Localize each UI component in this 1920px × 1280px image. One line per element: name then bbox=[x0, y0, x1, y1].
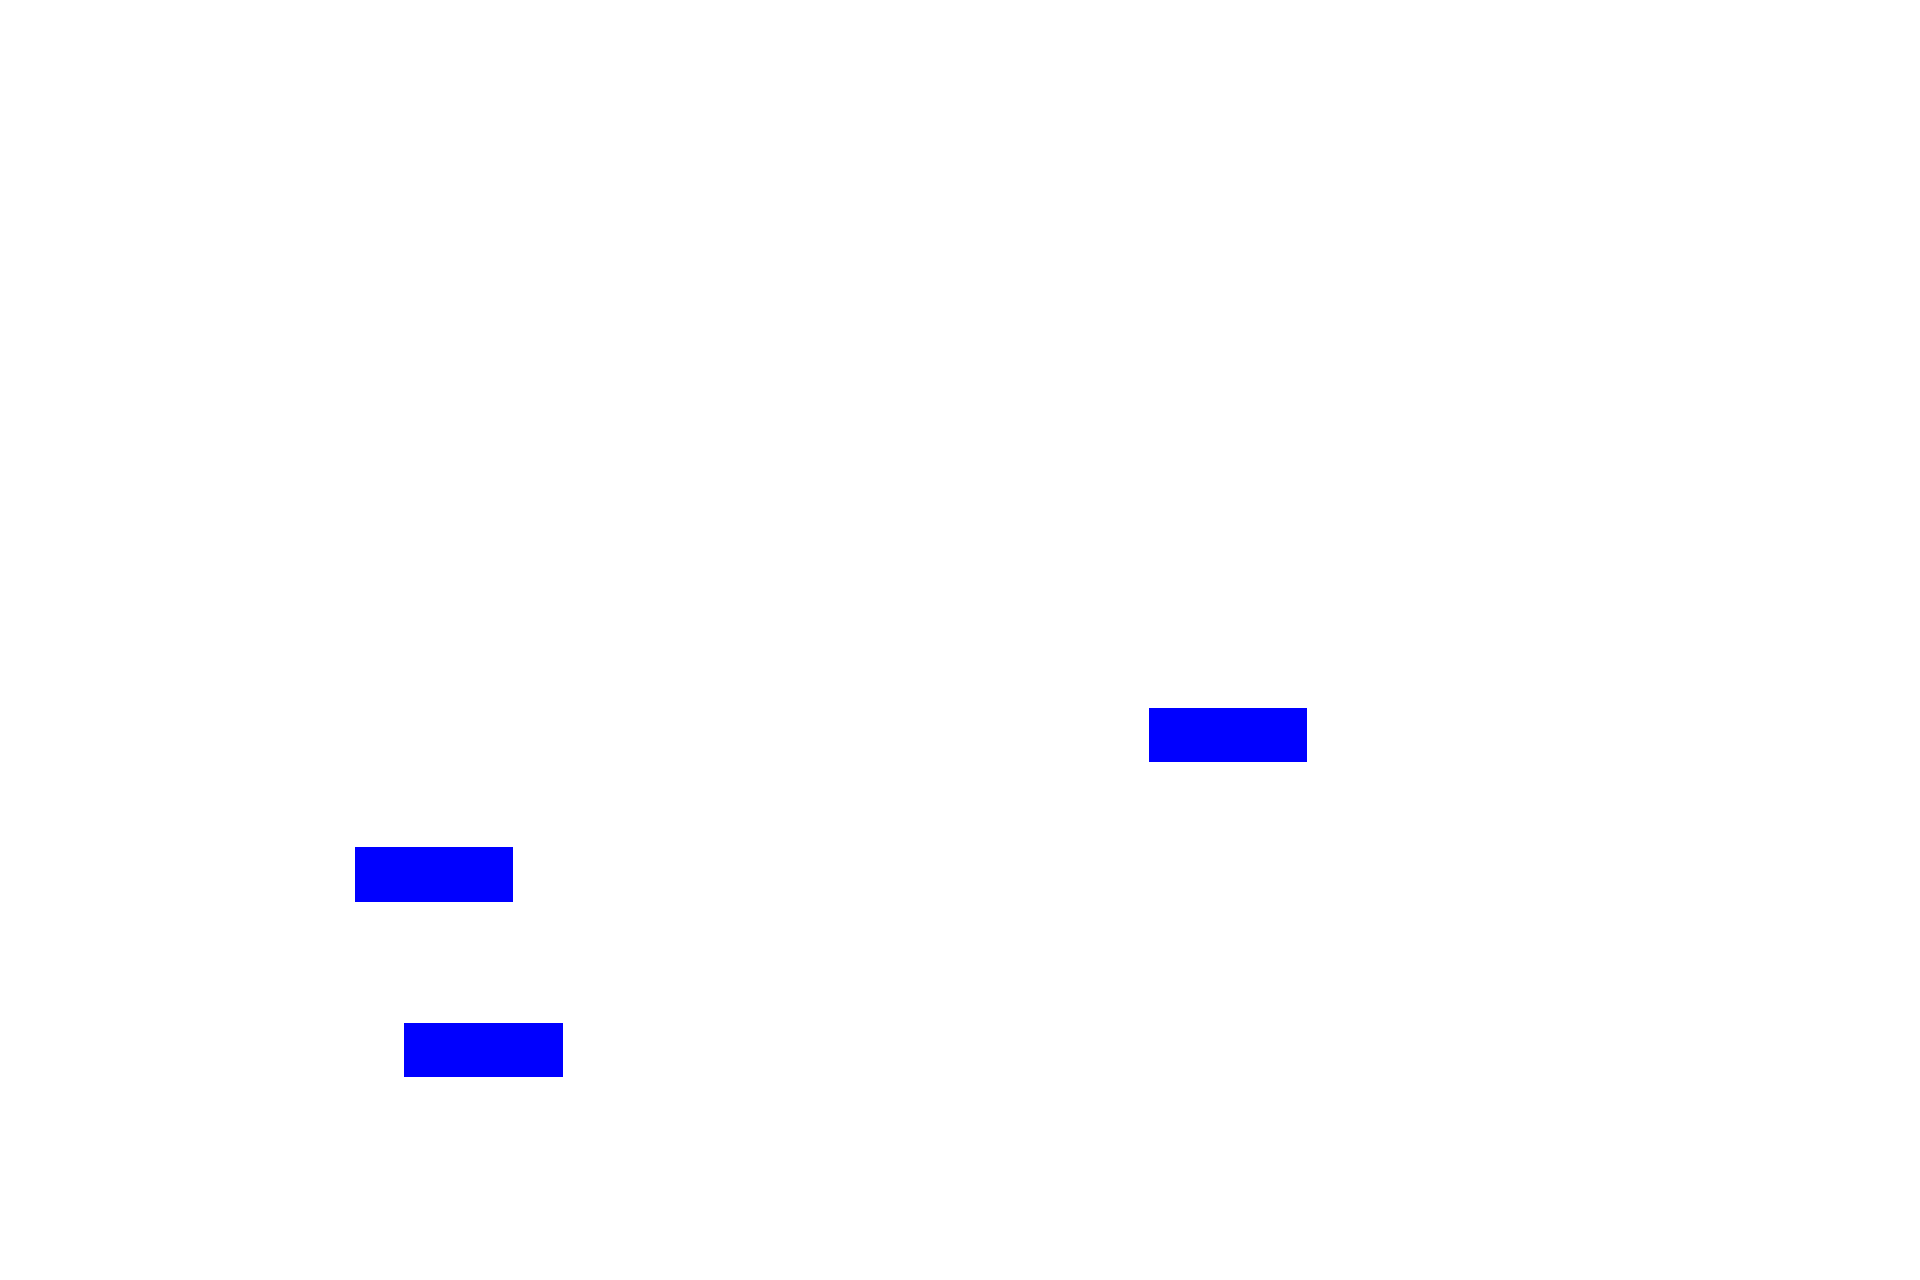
blue box right (top) bbox=[1149, 708, 1307, 762]
blue box left (middle) bbox=[355, 847, 513, 902]
blue box left (bottom) bbox=[404, 1023, 563, 1077]
